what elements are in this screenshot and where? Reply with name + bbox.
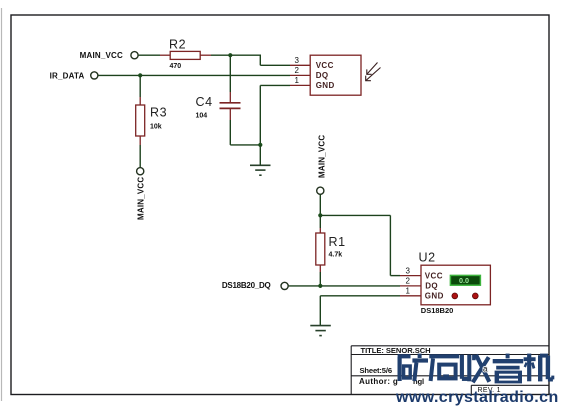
- pin number 3 (U2): [406, 267, 411, 276]
- svg-text:www.crystalradio.cn: www.crystalradio.cn: [395, 389, 559, 406]
- svg-text:2: 2: [406, 277, 411, 286]
- svg-text:MAIN_VCC: MAIN_VCC: [137, 177, 146, 220]
- wire R2 to node: [211, 54, 230, 56]
- svg-text:MAIN_VCC: MAIN_VCC: [318, 135, 327, 178]
- ground symbol (under U2): [310, 326, 331, 336]
- svg-text:VCC: VCC: [316, 61, 334, 70]
- wire DQ junction to U2 pin2: [320, 285, 400, 287]
- pin 3 stub of U2: [400, 275, 421, 277]
- svg-text:3: 3: [295, 56, 300, 65]
- terminal circle MAIN_VCC (middle): [317, 187, 324, 194]
- svg-text:1: 1: [295, 76, 300, 85]
- wire junction to U2 pin3: [320, 215, 400, 275]
- pin 2 stub of IR receiver: [290, 74, 310, 76]
- IR receiver component box: [310, 55, 361, 95]
- wire MAIN_VCC terminal to R2: [138, 54, 160, 56]
- author text continued ngl: [413, 377, 424, 386]
- value 10k: [150, 124, 162, 131]
- terminal circle MAIN_VCC (below R3): [137, 168, 144, 175]
- svg-text:DS18B20_DQ: DS18B20_DQ: [222, 281, 271, 290]
- wire C4 bottom to ground node: [230, 120, 260, 145]
- title block frame: [351, 346, 549, 395]
- value 470: [170, 63, 182, 70]
- resistor R2: [160, 51, 211, 59]
- svg-text:4.7k: 4.7k: [329, 252, 343, 259]
- terminal circle MAIN_VCC (top left): [131, 52, 138, 59]
- svg-text:DQ: DQ: [425, 281, 438, 290]
- pin 1 stub of U2: [400, 295, 421, 297]
- svg-text:470: 470: [170, 63, 182, 70]
- capacitor C4: [220, 92, 241, 120]
- svg-text:R3: R3: [150, 106, 167, 120]
- wire VCC node down to C4: [229, 55, 231, 92]
- pin number 1: [295, 76, 300, 85]
- terminal circle DS18B20_DQ: [281, 282, 288, 289]
- watermark ideograph kuang: [398, 354, 428, 381]
- svg-text:3: 3: [406, 267, 411, 276]
- node junction VCC net: [228, 53, 232, 57]
- watermark ideograph ji: [524, 354, 553, 382]
- svg-text:a: a: [483, 365, 488, 374]
- label C4: [196, 95, 213, 109]
- svg-text:R1: R1: [329, 235, 346, 249]
- label U2: [419, 251, 436, 265]
- wire junction to ground symbol: [259, 145, 261, 165]
- wire pin1 of IR receiver down: [260, 85, 290, 144]
- node junction MAIN_VCC / R1: [318, 213, 322, 217]
- svg-text:GND: GND: [425, 291, 444, 300]
- ground symbol (under C4): [250, 165, 271, 175]
- svg-text:MAIN_VCC: MAIN_VCC: [80, 51, 123, 60]
- net label IR_DATA: [50, 71, 85, 80]
- author text: [359, 377, 398, 386]
- node junction IR_DATA / R3: [138, 73, 142, 77]
- U2 LED left: [452, 293, 458, 299]
- svg-text:Author: g: Author: g: [359, 377, 398, 386]
- pin number 3: [295, 56, 300, 65]
- net label DS18B20_DQ: [222, 281, 271, 290]
- screenshot edge artifact line: [1, 8, 3, 401]
- value 4.7k: [329, 252, 343, 259]
- net label MAIN_VCC vertical (below R3): [137, 177, 146, 220]
- terminal circle IR_DATA: [91, 72, 98, 79]
- svg-text:U2: U2: [419, 251, 436, 265]
- wire IR_DATA junction to pin2: [140, 74, 290, 76]
- svg-text:IR_DATA: IR_DATA: [50, 71, 85, 80]
- title text TITLE: SENOR.SCH: [361, 346, 431, 355]
- svg-text:2: 2: [295, 66, 300, 75]
- label R3: [150, 106, 167, 120]
- label DS18B20: [421, 306, 454, 315]
- watermark ideograph yin: [493, 354, 524, 384]
- watermark ideograph shi: [429, 356, 459, 381]
- svg-text:R2: R2: [169, 38, 186, 52]
- svg-text:TITLE: SENOR.SCH: TITLE: SENOR.SCH: [361, 346, 431, 355]
- node junction DQ net: [318, 284, 322, 288]
- net label MAIN_VCC (top left): [80, 51, 123, 60]
- wire R3 to lower terminal: [139, 145, 141, 168]
- pin 2 stub of U2: [400, 285, 421, 287]
- pin number 2: [295, 66, 300, 75]
- IR light arrows: [366, 63, 381, 81]
- sheet row letter a: [483, 365, 488, 374]
- component U2 DS18B20 box: [421, 265, 490, 305]
- svg-text:104: 104: [196, 113, 208, 120]
- wire IR_DATA to junction: [98, 74, 140, 76]
- resistor R3: [136, 97, 145, 145]
- svg-text:C4: C4: [196, 95, 213, 109]
- wire terminal to junction: [319, 194, 321, 215]
- resistor R1: [316, 215, 325, 286]
- svg-text:GND: GND: [316, 81, 335, 90]
- rev text: [478, 387, 501, 394]
- wire DS18B20_DQ to junction: [288, 285, 320, 287]
- svg-text:10k: 10k: [150, 124, 162, 131]
- svg-text:VCC: VCC: [425, 271, 443, 280]
- U2 LED right: [472, 293, 478, 299]
- svg-text:1: 1: [406, 287, 411, 296]
- watermark ideograph shou: [462, 355, 489, 383]
- sheet text: [360, 366, 392, 375]
- svg-text:DS18B20: DS18B20: [421, 306, 454, 315]
- svg-text:0.0: 0.0: [459, 276, 469, 285]
- net label MAIN_VCC vertical (middle): [318, 135, 327, 178]
- pin 3 stub of IR receiver: [290, 64, 310, 66]
- wire junction down to R3: [139, 75, 141, 97]
- pin 1 stub of IR receiver: [290, 84, 310, 86]
- pin number 2 (U2): [406, 277, 411, 286]
- U2 LCD display: [450, 275, 480, 285]
- label R2: [169, 38, 186, 52]
- node junction ground net: [258, 143, 262, 147]
- wire U2 pin1 to ground: [320, 296, 400, 325]
- wire node to pin3 corner: [230, 55, 290, 66]
- svg-text:DQ: DQ: [316, 71, 329, 80]
- value 104: [196, 113, 208, 120]
- watermark url text: [395, 389, 559, 406]
- label R1: [329, 235, 346, 249]
- pin number 1 (U2): [406, 287, 411, 296]
- svg-text:Sheet:5/6: Sheet:5/6: [360, 366, 392, 375]
